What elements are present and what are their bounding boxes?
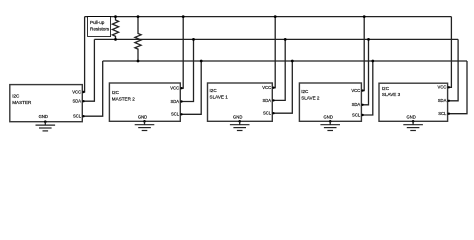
svg-text:VCC: VCC: [170, 86, 179, 91]
wire U4 VCC riser: [361, 17, 364, 91]
svg-text:SDA: SDA: [72, 99, 81, 104]
svg-text:SDA: SDA: [352, 102, 361, 107]
net SDA bus: [94, 38, 458, 40]
svg-text:VCC: VCC: [438, 85, 447, 90]
IC U1: I2C MASTER: [10, 85, 83, 122]
svg-text:SLAVE 2: SLAVE 2: [301, 96, 320, 101]
svg-text:GND: GND: [138, 114, 147, 119]
pin dot U1.SDA: [82, 100, 84, 102]
pin dot U3.VCC: [272, 87, 274, 89]
svg-text:GND: GND: [39, 114, 48, 119]
wire U3 SDA riser: [272, 39, 285, 100]
wire U4 SCL riser: [361, 61, 372, 115]
IC U5: I2C SLAVE 3: [379, 83, 448, 121]
svg-text:VCC: VCC: [351, 88, 360, 93]
ground symbol at U2.GND: [135, 120, 155, 131]
svg-text:SCL: SCL: [263, 111, 272, 116]
svg-text:I2C: I2C: [301, 89, 309, 94]
wire U5 SCL stub: [448, 61, 467, 114]
wire U1 SCL riser: [82, 61, 102, 116]
svg-text:I2C: I2C: [12, 93, 20, 98]
junction: U3 VCC tap on bus: [274, 15, 277, 18]
svg-text:SDA: SDA: [438, 98, 447, 103]
pin dot U2.SCL: [180, 113, 182, 115]
pin dot U5.VCC: [448, 86, 450, 88]
pin dot U2.VCC: [180, 87, 182, 89]
pin dot U4.SDA: [361, 104, 363, 106]
svg-text:I2C: I2C: [112, 90, 120, 95]
IC U2: I2C MASTER 2: [109, 83, 180, 121]
pin dot U1.SCL: [82, 115, 84, 117]
svg-text:GND: GND: [233, 114, 242, 119]
junction: R1 top on VCC bus: [114, 15, 117, 18]
junction: U4 SCL tap on bus: [371, 60, 374, 63]
svg-text:SDA: SDA: [262, 98, 271, 103]
svg-text:VCC: VCC: [72, 89, 81, 94]
pin dot U2.SDA: [180, 100, 182, 102]
junction: U3 SDA tap on bus: [284, 38, 287, 41]
svg-text:SLAVE 3: SLAVE 3: [382, 92, 401, 97]
wire U3 SCL riser: [272, 61, 292, 113]
pin dot U1.VCC: [82, 91, 84, 93]
net VCC bus (top rail): [85, 16, 452, 18]
ground symbol at U1.GND: [36, 120, 56, 131]
pin dot U5.SCL: [448, 113, 450, 115]
svg-text:SLAVE 1: SLAVE 1: [210, 94, 229, 99]
junction: R2 bottom on SCL bus: [137, 60, 140, 63]
IC U3: I2C SLAVE 1: [208, 83, 273, 121]
svg-text:I2C: I2C: [382, 86, 390, 91]
wire U2 SDA riser: [180, 39, 193, 101]
ground symbol at U4.GND: [320, 120, 340, 131]
pin dot U5.SDA: [448, 100, 450, 102]
pin dot U3.SCL: [272, 112, 274, 114]
svg-text:GND: GND: [406, 114, 415, 119]
svg-text:SCL: SCL: [73, 114, 82, 119]
pin dot U3.SDA: [272, 99, 274, 101]
svg-text:MASTER: MASTER: [12, 100, 32, 105]
resistor R1 (pull-up on SDA): [112, 17, 118, 40]
wire U2 SCL riser: [180, 61, 201, 114]
junction: U4 SDA tap on bus: [367, 38, 370, 41]
svg-text:GND: GND: [324, 114, 333, 119]
wire U5 VCC stub: [448, 17, 452, 88]
net SCL bus: [103, 60, 467, 62]
IC U4: I2C SLAVE 2: [299, 83, 361, 121]
junction: U2 VCC tap on bus: [182, 15, 185, 18]
junction: U2 SCL tap on bus: [200, 60, 203, 63]
junction: R1 bottom on SDA bus: [114, 38, 117, 41]
svg-text:I2C: I2C: [210, 88, 218, 93]
wire U5 SDA stub: [448, 39, 459, 100]
ground symbol at U3.GND: [230, 120, 250, 131]
pin dot U4.VCC: [361, 89, 363, 91]
junction: R2 top on VCC bus: [137, 15, 140, 18]
svg-text:Resistors: Resistors: [90, 27, 110, 32]
svg-text:SCL: SCL: [352, 112, 361, 117]
pin dot U4.SCL: [361, 114, 363, 116]
svg-text:VCC: VCC: [262, 85, 271, 90]
svg-text:SCL: SCL: [171, 112, 180, 117]
junction: U4 VCC tap on bus: [363, 15, 366, 18]
junction: U2 SDA tap on bus: [192, 38, 195, 41]
junction: U3 SCL tap on bus: [291, 60, 294, 63]
ground symbol at U5.GND: [403, 120, 423, 131]
wire U2 VCC riser: [180, 17, 183, 89]
svg-text:Pull-up: Pull-up: [90, 20, 105, 25]
resistor R2 (pull-up on SCL): [135, 17, 141, 61]
wire U1 SDA riser: [82, 39, 94, 101]
wire U4 SDA riser: [361, 39, 368, 104]
svg-text:SCL: SCL: [438, 111, 447, 116]
wire U3 VCC riser: [272, 17, 275, 88]
svg-text:SDA: SDA: [170, 99, 179, 104]
svg-text:MASTER 2: MASTER 2: [112, 96, 135, 101]
wire U1 VCC riser: [82, 17, 84, 92]
label box: Pull-up Resistors: [88, 17, 111, 37]
